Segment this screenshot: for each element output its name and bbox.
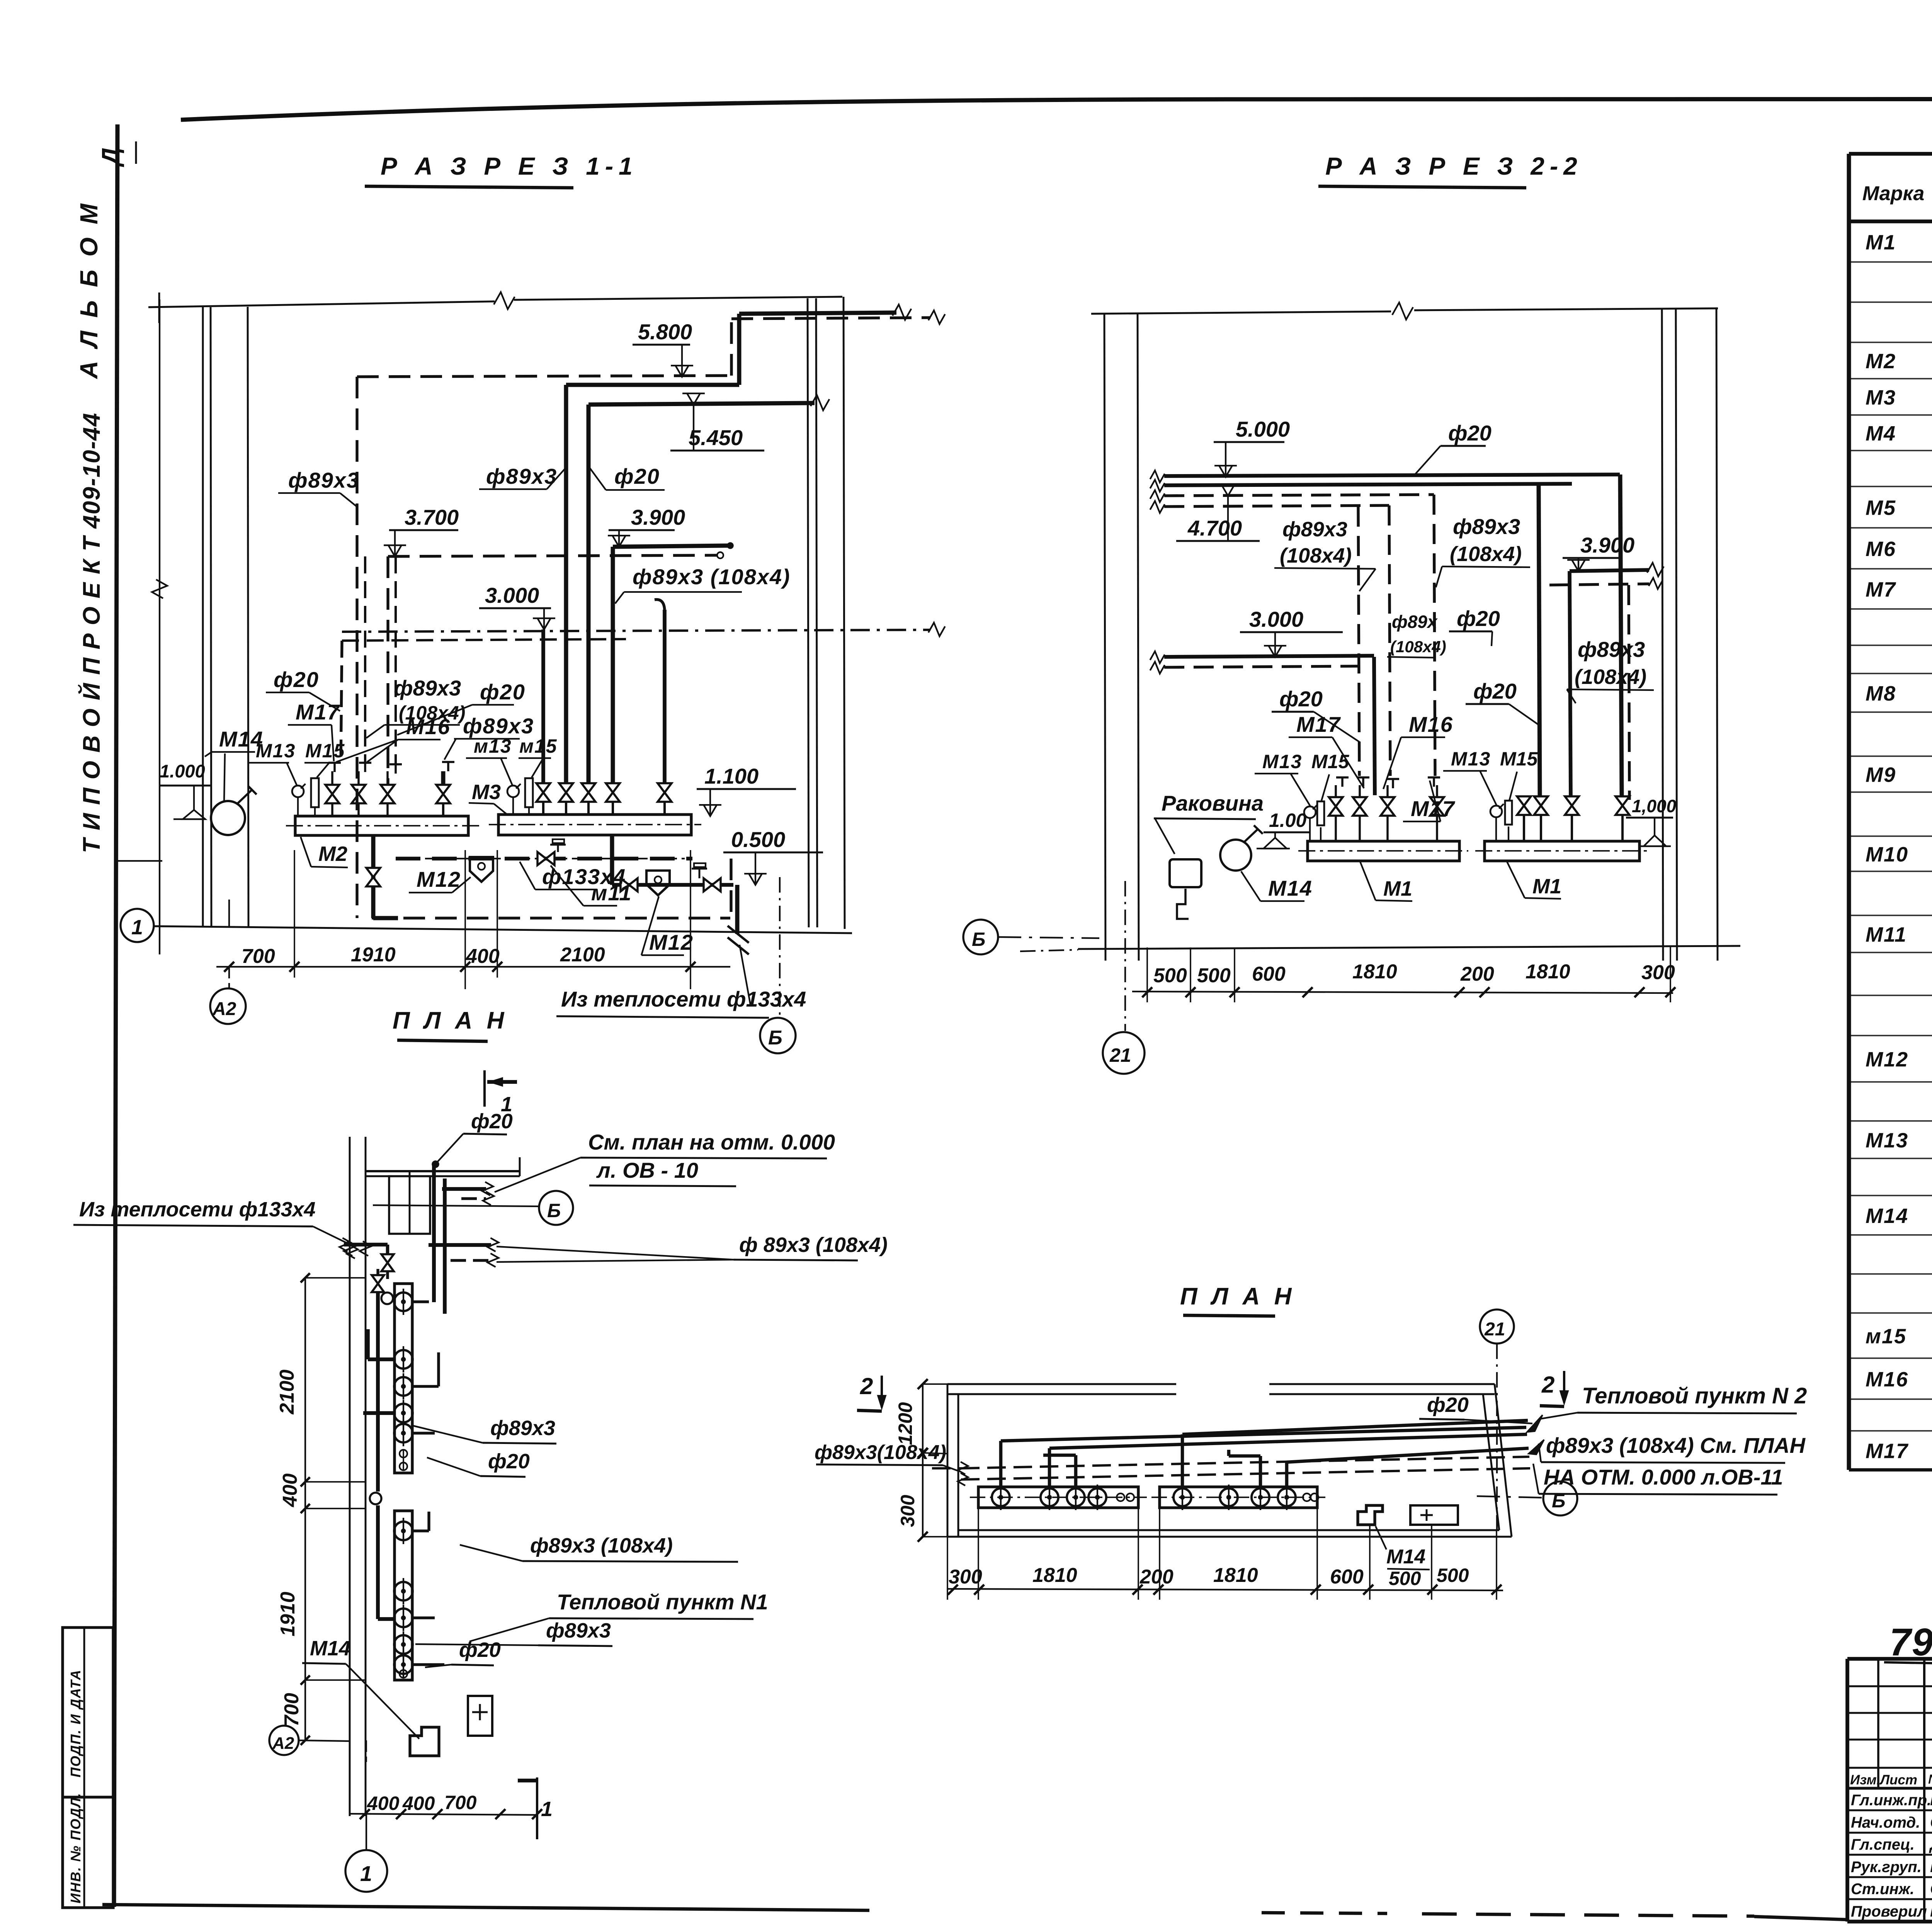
- svg-text:1810: 1810: [1526, 961, 1570, 983]
- svg-text:500: 500: [1153, 964, 1187, 987]
- svg-text:5.000: 5.000: [1236, 417, 1290, 441]
- svg-text:Б: Б: [547, 1200, 561, 1221]
- svg-text:1: 1: [131, 916, 143, 939]
- svg-text:ф20: ф20: [471, 1110, 513, 1133]
- svg-text:М16: М16: [1866, 1368, 1908, 1391]
- svg-text:1,000: 1,000: [1632, 796, 1677, 816]
- svg-text:М14: М14: [219, 727, 264, 751]
- svg-text:3.900: 3.900: [1580, 533, 1634, 557]
- svg-text:ф89х3: ф89х3: [546, 1619, 611, 1642]
- svg-text:М1: М1: [1383, 877, 1412, 900]
- svg-text:3.900: 3.900: [631, 505, 685, 529]
- svg-text:М9: М9: [1866, 764, 1896, 787]
- svg-text:Семенов: Семенов: [1930, 1813, 1932, 1831]
- svg-text:Б: Б: [768, 1027, 782, 1049]
- svg-text:5.800: 5.800: [638, 320, 692, 344]
- svg-text:М14: М14: [1386, 1546, 1425, 1568]
- svg-text:ф89х3: ф89х3: [1578, 637, 1645, 662]
- svg-text:(108х4): (108х4): [1390, 638, 1446, 656]
- svg-text:М2: М2: [1866, 350, 1896, 373]
- svg-text:ф89х3: ф89х3: [1282, 518, 1347, 541]
- svg-text:М14: М14: [1268, 876, 1313, 900]
- svg-text:(108х4): (108х4): [1280, 544, 1352, 567]
- svg-text:См. план на отм. 0.000: См. план на отм. 0.000: [588, 1130, 835, 1154]
- svg-text:М15: М15: [1500, 748, 1538, 770]
- svg-text:А2: А2: [272, 1734, 294, 1753]
- svg-text:1810: 1810: [1032, 1564, 1077, 1587]
- svg-text:М17: М17: [296, 700, 340, 724]
- svg-text:600: 600: [1252, 963, 1286, 985]
- svg-text:ф20: ф20: [1279, 687, 1323, 711]
- svg-text:ф20: ф20: [480, 680, 526, 704]
- svg-text:М8: М8: [1866, 682, 1896, 705]
- svg-text:500: 500: [1389, 1568, 1421, 1589]
- svg-text:2: 2: [1541, 1372, 1554, 1398]
- svg-text:300: 300: [897, 1495, 918, 1527]
- svg-text:500: 500: [1197, 964, 1231, 987]
- svg-text:м15: м15: [1866, 1325, 1906, 1348]
- svg-text:М17: М17: [1866, 1440, 1909, 1463]
- svg-text:М15: М15: [1311, 751, 1349, 772]
- svg-text:Гл.спец.: Гл.спец.: [1851, 1836, 1915, 1853]
- svg-text:М1: М1: [1532, 875, 1561, 898]
- svg-text:ф20: ф20: [1457, 606, 1500, 631]
- svg-text:М1: М1: [1866, 231, 1896, 254]
- svg-text:А2: А2: [212, 999, 236, 1019]
- svg-text:Собко: Собко: [1930, 1879, 1932, 1898]
- svg-text:ф20: ф20: [459, 1638, 501, 1662]
- svg-text:М12: М12: [417, 867, 461, 891]
- svg-text:ф20: ф20: [274, 667, 319, 692]
- svg-text:А Л Ь Б О М: А Л Ь Б О М: [75, 201, 103, 379]
- svg-text:П Л А Н: П Л А Н: [1180, 1283, 1295, 1310]
- svg-text:700: 700: [281, 1693, 303, 1726]
- svg-text:Нач.отд.: Нач.отд.: [1851, 1814, 1920, 1831]
- svg-text:ф89х3: ф89х3: [1453, 514, 1520, 539]
- svg-text:ф89х3: ф89х3: [463, 714, 534, 738]
- svg-text:М16: М16: [1409, 712, 1453, 736]
- svg-text:М3: М3: [1866, 386, 1896, 409]
- svg-text:М13: М13: [1262, 751, 1302, 772]
- svg-text:ИНВ. № ПОДЛ.: ИНВ. № ПОДЛ.: [68, 1793, 83, 1903]
- svg-text:М7: М7: [1866, 578, 1896, 601]
- svg-text:1200: 1200: [895, 1402, 916, 1445]
- svg-text:2: 2: [860, 1373, 873, 1399]
- svg-text:М17: М17: [1411, 796, 1456, 821]
- svg-text:М13: М13: [1451, 748, 1491, 770]
- svg-text:1810: 1810: [1213, 1564, 1258, 1587]
- svg-text:3.700: 3.700: [405, 505, 459, 529]
- svg-text:ф20: ф20: [1427, 1393, 1469, 1417]
- svg-text:1.100: 1.100: [704, 764, 759, 788]
- svg-text:3.000: 3.000: [485, 583, 539, 607]
- svg-text:Проверил: Проверил: [1851, 1903, 1927, 1920]
- svg-text:5.450: 5.450: [689, 425, 743, 450]
- svg-text:М4: М4: [1866, 422, 1896, 445]
- svg-text:М5: М5: [1866, 497, 1896, 520]
- svg-text:М10: М10: [1866, 843, 1908, 866]
- svg-text:ф89х: ф89х: [1392, 612, 1438, 632]
- svg-text:Ст.инж.: Ст.инж.: [1851, 1881, 1914, 1898]
- svg-text:ф89х3 (108х4): ф89х3 (108х4): [633, 565, 791, 589]
- svg-text:ф89х3 (108х4): ф89х3 (108х4): [530, 1534, 673, 1557]
- svg-text:400: 400: [367, 1793, 400, 1814]
- svg-text:1810: 1810: [1352, 961, 1397, 983]
- svg-text:400: 400: [402, 1793, 435, 1814]
- svg-text:ф89х3: ф89х3: [490, 1417, 555, 1440]
- svg-text:1: 1: [360, 1861, 372, 1886]
- svg-text:Гл.инж.пр.: Гл.инж.пр.: [1851, 1792, 1931, 1809]
- svg-text:21: 21: [1109, 1044, 1131, 1066]
- svg-text:№ документа: № документа: [1928, 1772, 1932, 1787]
- svg-text:Тепловой пункт N1: Тепловой пункт N1: [557, 1590, 768, 1614]
- svg-text:Р А З Р Е З 1-1: Р А З Р Е З 1-1: [381, 152, 638, 180]
- svg-text:3.000: 3.000: [1249, 607, 1303, 631]
- svg-text:ф20: ф20: [488, 1450, 530, 1473]
- svg-text:ф 89х3 (108х4): ф 89х3 (108х4): [739, 1233, 888, 1257]
- svg-text:Д: Д: [97, 148, 124, 167]
- svg-text:4.700: 4.700: [1187, 516, 1242, 540]
- svg-text:1910: 1910: [277, 1592, 299, 1636]
- svg-text:М2: М2: [318, 842, 347, 866]
- svg-text:М6: М6: [1866, 537, 1896, 561]
- svg-text:400: 400: [466, 945, 500, 968]
- svg-text:М17: М17: [1296, 712, 1341, 736]
- svg-text:П Л А Н: П Л А Н: [393, 1007, 508, 1034]
- svg-text:Лист: Лист: [1879, 1772, 1917, 1787]
- svg-text:Тепловой пункт N 2: Тепловой пункт N 2: [1582, 1383, 1807, 1408]
- svg-text:ф20: ф20: [1448, 421, 1492, 445]
- svg-text:М14: М14: [310, 1637, 350, 1660]
- svg-text:300: 300: [949, 1566, 982, 1588]
- svg-text:ПОДП. И ДАТА: ПОДП. И ДАТА: [68, 1669, 83, 1777]
- svg-text:Матвеева: Матвеева: [1930, 1902, 1932, 1920]
- svg-text:700: 700: [241, 945, 275, 968]
- svg-text:0.500: 0.500: [731, 827, 785, 852]
- svg-text:400: 400: [279, 1473, 301, 1507]
- svg-text:Раковина: Раковина: [1162, 791, 1264, 815]
- svg-text:1.000: 1.000: [160, 761, 205, 781]
- svg-text:200: 200: [1460, 963, 1494, 985]
- svg-text:21: 21: [1484, 1319, 1505, 1340]
- svg-text:(108х4): (108х4): [1450, 543, 1522, 566]
- svg-text:1910: 1910: [351, 944, 396, 966]
- svg-text:М11: М11: [1866, 923, 1907, 946]
- svg-text:М3: М3: [472, 781, 501, 804]
- svg-text:Рыжак: Рыжак: [1930, 1791, 1932, 1809]
- svg-text:ф89х3(108х4): ф89х3(108х4): [815, 1441, 946, 1464]
- svg-text:ф89х3: ф89х3: [288, 468, 359, 492]
- svg-text:1.00: 1.00: [1269, 810, 1307, 831]
- svg-text:м15: м15: [519, 735, 558, 757]
- svg-text:НА ОТМ. 0.000 л.ОВ-11: НА ОТМ. 0.000 л.ОВ-11: [1544, 1465, 1783, 1489]
- svg-text:700: 700: [444, 1792, 477, 1813]
- svg-text:М13: М13: [1866, 1129, 1908, 1152]
- svg-text:Р А З Р Е З 2-2: Р А З Р Е З 2-2: [1325, 152, 1583, 180]
- svg-text:Из теплосети ф133х4: Из теплосети ф133х4: [79, 1198, 316, 1221]
- svg-text:2100: 2100: [276, 1369, 298, 1415]
- svg-text:ф89х3: ф89х3: [394, 676, 461, 700]
- svg-text:Из теплосети ф133х4: Из теплосети ф133х4: [561, 987, 806, 1011]
- svg-text:М12: М12: [1866, 1048, 1908, 1071]
- svg-text:м13: м13: [474, 735, 512, 757]
- svg-text:2100: 2100: [560, 944, 605, 966]
- svg-text:(108х4): (108х4): [1575, 665, 1646, 689]
- svg-text:ф20: ф20: [614, 464, 660, 488]
- svg-text:м11: м11: [591, 881, 632, 905]
- svg-text:М12: М12: [649, 930, 694, 954]
- svg-text:л. ОВ - 10: л. ОВ - 10: [596, 1158, 698, 1182]
- svg-text:ф89х3 (108х4) См. ПЛАН: ф89х3 (108х4) См. ПЛАН: [1546, 1433, 1806, 1458]
- svg-text:200: 200: [1139, 1566, 1173, 1588]
- svg-text:Б: Б: [972, 929, 985, 950]
- svg-text:500: 500: [1437, 1565, 1469, 1586]
- svg-text:М14: М14: [1866, 1204, 1908, 1228]
- svg-text:ф89х3: ф89х3: [486, 464, 557, 488]
- svg-text:1: 1: [541, 1798, 553, 1821]
- svg-text:М16: М16: [406, 714, 451, 739]
- svg-text:Матвеева: Матвеева: [1930, 1857, 1932, 1876]
- svg-text:Марка: Марка: [1862, 182, 1925, 205]
- svg-text:600: 600: [1330, 1566, 1364, 1588]
- svg-text:Рук.груп.: Рук.груп.: [1851, 1859, 1922, 1876]
- svg-text:М15: М15: [305, 740, 345, 762]
- svg-text:Изм.: Изм.: [1850, 1772, 1880, 1787]
- svg-text:ф20: ф20: [1473, 679, 1517, 703]
- svg-text:Т И П О В О Й П Р О Е К Т 40: Т И П О В О Й П Р О Е К Т 409-10-44: [78, 412, 105, 853]
